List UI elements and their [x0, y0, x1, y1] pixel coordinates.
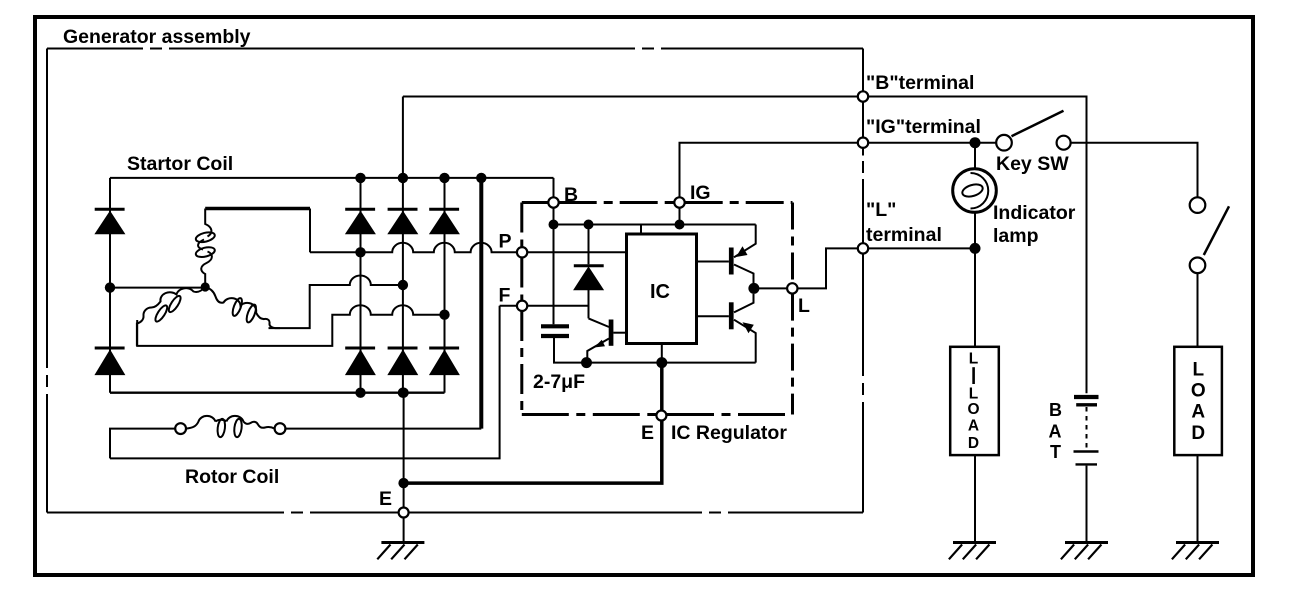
terminal circle B [548, 197, 558, 207]
rectifier diode D2 (neutral lower) [95, 348, 125, 375]
svg-text:"L": "L" [866, 199, 896, 221]
label: L-LOAD [967, 351, 979, 453]
wire: field return line to F [110, 306, 500, 459]
stator phase A coil (vertical) [195, 209, 216, 284]
svg-text:O: O [1191, 381, 1206, 402]
wire: heavy rotor supply line from top rail [479, 178, 483, 429]
wire: bottom rail of rectifier (E) [110, 392, 445, 394]
LOAD box [1174, 347, 1222, 455]
svg-text:A: A [1049, 422, 1062, 442]
svg-text:A: A [968, 418, 979, 435]
indicator lamp [953, 169, 997, 213]
wire: IG terminal wire [680, 143, 859, 198]
wire: lamp feed from IG junction [974, 143, 976, 169]
wire: F stub into regulator [500, 305, 517, 307]
svg-text:T: T [1050, 442, 1061, 462]
stator star point node [201, 282, 210, 291]
IC U1 box [627, 234, 697, 344]
wire: P sense line with hops [310, 243, 517, 253]
svg-text:Rotor Coil: Rotor Coil [185, 466, 279, 488]
svg-text:IC Regulator: IC Regulator [671, 422, 787, 444]
terminal circle P [517, 247, 527, 257]
terminal circle L [787, 283, 797, 293]
svg-text:L: L [969, 351, 978, 368]
rectifier diode D6 (lower, column 1) [345, 348, 375, 375]
stator phase C coil (lower left) [137, 287, 205, 346]
svg-text:B: B [564, 184, 578, 206]
key switch SW1 [996, 111, 1070, 151]
transistor Q3 (lower darlington) [697, 294, 756, 363]
battery BAT [1074, 397, 1099, 464]
wire: F line to zener anode node [527, 305, 589, 307]
terminal circle IG generator [858, 138, 868, 148]
IC regulator boundary box (dash-dot) [522, 203, 793, 415]
wire: phase C link [137, 305, 444, 346]
wire: L terminal wire from regulator [754, 248, 858, 288]
wire: diode column 2 [402, 178, 404, 393]
svg-text:lamp: lamp [993, 225, 1039, 247]
wire: phase A riser [309, 209, 311, 253]
wire: IC bottom stub to rail [661, 344, 663, 363]
svg-text:A: A [1191, 402, 1205, 423]
svg-text:F: F [499, 285, 511, 307]
wire: rotor coil left lead [110, 429, 175, 459]
junction dots on rectifier rails [105, 173, 487, 489]
ground symbol at LOAD [1172, 543, 1219, 560]
wire: IG terminal to key switch [868, 142, 996, 144]
terminal circle E generator [399, 508, 409, 518]
wire: top rail of rectifier (B+) [110, 177, 554, 179]
wire: E terminal to chassis ground [403, 518, 405, 543]
svg-text:IC: IC [650, 281, 670, 303]
rectifier diode D8 (lower, column 3) [429, 348, 459, 375]
terminal circle B generator [858, 91, 868, 101]
terminal circle F [517, 301, 527, 311]
L-LOAD box [950, 347, 999, 455]
wire: rail stub into IC top [640, 225, 642, 235]
ground symbol at battery [1061, 543, 1108, 560]
rectifier diode D3 (upper, column 1) [345, 209, 375, 234]
rectifier diode D4 (upper, column 2) [388, 209, 418, 234]
wire: E drop from rail (thick) [660, 363, 664, 411]
wire: IG input drop to rail [679, 208, 681, 225]
zener diode ZD1 [574, 225, 604, 319]
stator phase B coil (lower right) [205, 287, 280, 328]
wire: regulator internal top rail [554, 224, 756, 226]
capacitor C1 (2-7uF) [541, 326, 569, 336]
svg-text:O: O [967, 401, 979, 418]
rotor brush circle left [175, 423, 186, 434]
wire: regulator E to generator E (thick) [404, 420, 662, 483]
wire: phase B link [269, 276, 403, 329]
svg-text:L: L [1192, 360, 1204, 381]
rotor brush circle right [275, 423, 286, 434]
wire: regulator internal bottom rail [554, 338, 756, 363]
wire: right switch to LOAD to ground [1197, 273, 1199, 543]
svg-text:Indicator: Indicator [993, 202, 1076, 224]
transistor Q1 (regulator output) [587, 318, 626, 362]
svg-text:"B"terminal: "B"terminal [866, 72, 974, 94]
rectifier diode D5 (upper, column 3) [429, 209, 459, 234]
svg-text:Key SW: Key SW [996, 153, 1069, 175]
transistor Q2 (upper darlington) [697, 225, 756, 284]
terminal circle IG [674, 197, 684, 207]
wire: B terminal wire across top [403, 96, 858, 98]
svg-text:B: B [1049, 400, 1062, 420]
svg-text:E: E [379, 488, 392, 510]
svg-text:L: L [969, 386, 978, 403]
wire: lamp bottom to L junction and down to L-LOAD [974, 212, 976, 542]
rectifier diode D1 (neutral upper) [95, 209, 125, 234]
svg-text:D: D [1191, 423, 1205, 444]
wire: rotor coil right lead to supply [285, 428, 481, 430]
svg-text:"IG"terminal: "IG"terminal [866, 116, 981, 138]
rectifier diode D7 (lower, column 2) [388, 348, 418, 375]
terminal circle L generator [858, 243, 868, 253]
wire: B terminal to battery riser [868, 97, 1086, 394]
svg-text:2-7μF: 2-7μF [533, 371, 585, 393]
junction dot IG-lamp [970, 137, 981, 148]
svg-text:D: D [968, 435, 979, 452]
wire: battery bottom to ground [1086, 466, 1088, 543]
svg-text:L: L [798, 295, 810, 317]
wire: diode column 3 [444, 178, 446, 393]
wire: L terminal to lamp junction [868, 247, 975, 249]
label: LOAD [1191, 360, 1206, 445]
wire: left neutral diode column [109, 178, 111, 393]
wire: P input into IC [527, 251, 626, 253]
wire: rail drop to regulator B input [553, 178, 555, 198]
svg-text:P: P [499, 231, 512, 253]
terminal circle E regulator [656, 411, 666, 421]
wire: E drop from rectifier to E terminal [403, 393, 405, 508]
svg-text:terminal: terminal [866, 224, 942, 246]
junction dot L-lamp [970, 243, 981, 254]
load switch SW2 [1190, 197, 1229, 273]
junction dots inside regulator [549, 220, 760, 369]
svg-text:Generator assembly: Generator assembly [63, 26, 251, 48]
wire: B riser from top rail up to B terminal wire [402, 97, 404, 178]
svg-text:Startor Coil: Startor Coil [127, 153, 233, 175]
wire: diode column 1 [360, 178, 362, 393]
rotor coil [186, 416, 275, 438]
hyphen bar of L-LOAD [972, 367, 975, 384]
ground symbol at L-LOAD [949, 543, 996, 560]
ground symbol at E terminal [377, 543, 424, 560]
wire: key switch to right load switch [1071, 143, 1198, 198]
wire: B input drop to capacitor [553, 208, 555, 325]
svg-text:E: E [641, 422, 654, 444]
svg-text:IG: IG [690, 182, 711, 204]
wire: neutral line to star point [110, 287, 205, 289]
generator assembly boundary box (dash-dot) [47, 49, 863, 513]
wire: phase A top link (thick) [205, 207, 310, 211]
